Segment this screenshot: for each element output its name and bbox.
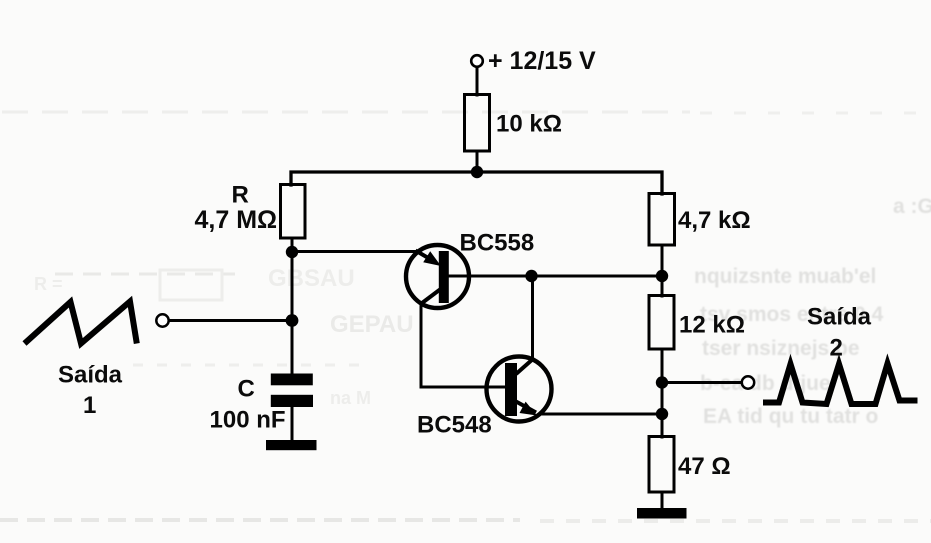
- wire R 10k to supply rail: [476, 151, 479, 172]
- sawtooth waveform Saida 1: [25, 302, 137, 344]
- junction BC558 base / BC548 collector: [525, 270, 537, 282]
- svg-text:R =: R =: [34, 274, 63, 294]
- svg-text:Saída: Saída: [807, 304, 872, 331]
- wire BC558 collector down to BC548 base: [421, 303, 506, 387]
- svg-text:GEPAU: GEPAU: [330, 311, 414, 338]
- wire 12k to 47 Ohm: [661, 349, 664, 437]
- terminal Saida 2: [742, 376, 754, 388]
- resistor 47 Ohm: [649, 437, 674, 493]
- ground (left, capacitor): [266, 440, 317, 450]
- wire node to BC558 emitter: [292, 250, 418, 253]
- svg-text:100 nF: 100 nF: [210, 407, 286, 434]
- wire Saida 1 terminal to node: [169, 319, 292, 322]
- svg-text:12 kΩ: 12 kΩ: [679, 312, 745, 339]
- svg-text:nquizsnte muab'el: nquizsnte muab'el: [694, 265, 876, 288]
- junction rail / 10k: [471, 166, 483, 178]
- ground (right, 47 Ohm): [637, 508, 687, 519]
- junction base wire / right rail: [656, 270, 668, 282]
- junction node R / C / BC558 emitter: [286, 246, 298, 258]
- svg-text:4,7 MΩ: 4,7 MΩ: [195, 206, 278, 234]
- junction Saida 2 node: [656, 376, 668, 388]
- svg-text:R: R: [232, 182, 249, 209]
- svg-text:BC548: BC548: [417, 412, 492, 439]
- svg-text:2: 2: [830, 335, 843, 362]
- wire BC548 collector up to base node: [531, 276, 534, 360]
- wire BC548 emitter to right rail: [540, 413, 662, 416]
- terminal Saida 1: [156, 314, 168, 326]
- wire 47 Ohm to ground: [661, 492, 664, 509]
- triangle waveform Saida 2: [763, 364, 918, 405]
- wire capacitor to ground: [291, 405, 294, 441]
- svg-text:1: 1: [83, 392, 96, 419]
- svg-text:Saída: Saída: [58, 362, 123, 389]
- junction node Saida 1: [286, 314, 299, 327]
- wire supply rail: [291, 172, 662, 194]
- svg-text:C: C: [238, 376, 255, 403]
- power terminal +12/15V: [471, 55, 483, 67]
- wire R bottom to capacitor C: [291, 238, 294, 374]
- resistor R 4,7 MOhm: [281, 185, 306, 239]
- resistor 10 kOhm: [465, 95, 490, 152]
- wire BC558 base to right rail: [449, 275, 662, 278]
- junction BC548 emitter / right rail: [656, 408, 668, 420]
- wire 4,7k to 12k: [661, 245, 664, 296]
- svg-text:a :G: a :G: [893, 195, 931, 218]
- svg-text:EA tid qu tu tatr o: EA tid qu tu tatr o: [703, 405, 878, 428]
- transistor Q2 BC548 (NPN): [487, 357, 552, 422]
- svg-text:47 Ω: 47 Ω: [678, 453, 731, 480]
- capacitor C 100 nF: [271, 374, 313, 408]
- svg-text:na M: na M: [330, 388, 371, 408]
- resistor 12 kOhm: [649, 296, 674, 350]
- svg-text:GBSAU: GBSAU: [268, 265, 355, 292]
- svg-text:+ 12/15 V: + 12/15 V: [488, 47, 596, 75]
- resistor 4,7 kOhm: [649, 194, 675, 246]
- svg-text:BC558: BC558: [460, 230, 535, 257]
- svg-text:10 kΩ: 10 kΩ: [496, 111, 562, 138]
- wire to Saida 2 terminal: [662, 381, 742, 384]
- transistor Q1 BC558 (PNP): [406, 245, 469, 308]
- svg-text:4,7 kΩ: 4,7 kΩ: [678, 207, 751, 234]
- wire terminal to R 10k: [476, 67, 479, 95]
